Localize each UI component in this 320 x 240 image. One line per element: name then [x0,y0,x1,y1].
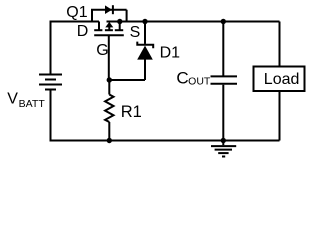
node C_OUT rail junction [221,19,226,24]
svg-text:VBATT: VBATT [7,91,45,111]
wire battery bottom lead [50,91,52,142]
diode D1 zener [137,42,153,80]
battery V_BATT [39,75,62,90]
node ground junction [221,138,226,143]
node body-source tie [117,19,122,24]
transistor Q1 body arrow [105,22,113,30]
wire top rail drain side [51,21,100,23]
wire body diode loop [91,10,127,23]
wire C_OUT top lead [222,22,224,76]
svg-text:D1: D1 [160,44,181,61]
svg-text:S: S [130,24,141,41]
svg-text:Load: Load [264,71,300,88]
svg-text:R1: R1 [121,103,142,121]
wire load bottom lead [279,91,281,141]
svg-text:COUT: COUT [176,69,211,88]
wire load top lead [279,22,281,67]
svg-text:D: D [77,23,89,40]
wire top rail source side [107,21,280,23]
capacitor C_OUT [211,76,238,83]
svg-text:G: G [96,42,108,59]
wire battery top lead [50,21,52,74]
svg-text:Q1: Q1 [66,4,87,21]
transistor Q1 gate plate [94,34,124,36]
wire gate node to D1 anode [109,79,145,81]
resistor R1 [105,80,113,141]
wire gate lead [108,35,110,80]
wire D1 cathode lead [144,22,146,44]
node D1 rail junction [142,19,147,24]
wire C_OUT bottom lead [222,85,224,141]
wire drain drop [98,22,100,31]
node R1 ground junction [107,138,112,143]
transistor Q1 channel segments [94,29,123,31]
diode Q1 body diode [105,5,113,14]
wire bottom ground rail [51,140,280,142]
load box [254,67,305,92]
wire source stub [119,22,121,31]
ground [211,141,236,157]
node gate junction [107,77,112,82]
